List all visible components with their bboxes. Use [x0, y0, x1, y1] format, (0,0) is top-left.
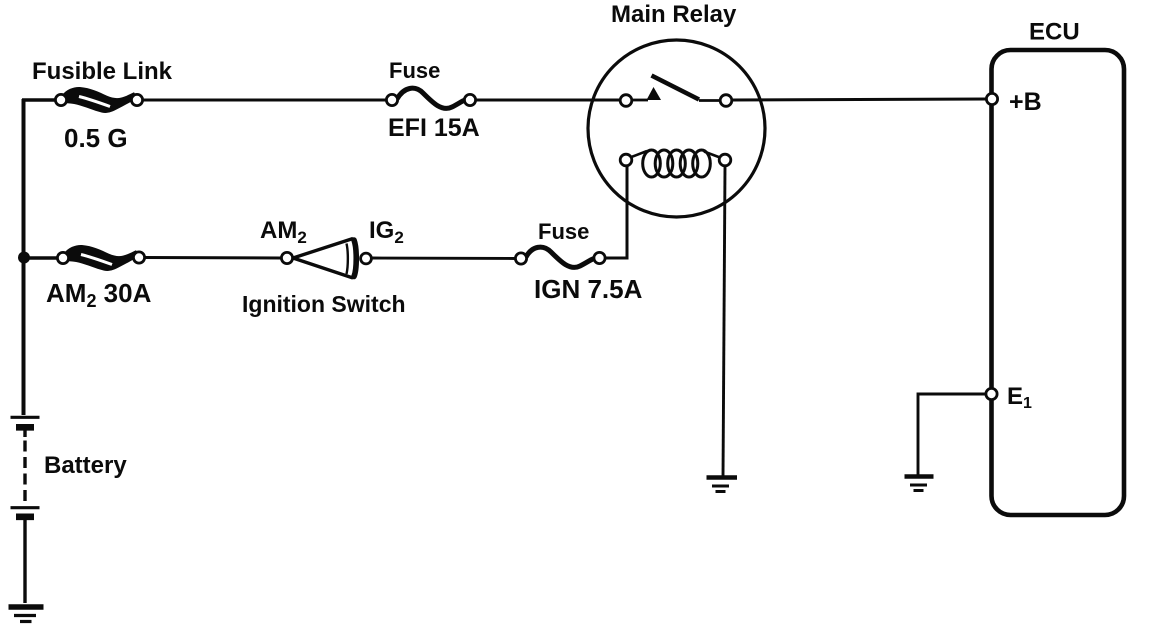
wire: EFI fuse to relay switch — [476, 99, 620, 102]
fuse EFI 15A — [386, 88, 475, 108]
relay switch contact (left pin) — [620, 95, 632, 107]
terminal E1 — [986, 388, 997, 399]
svg-text:Ignition Switch: Ignition Switch — [242, 291, 406, 317]
svg-text:AM2: AM2 — [260, 217, 307, 247]
relay fixed contact triangle — [632, 87, 661, 100]
wire: battery positive vertical riser — [22, 99, 26, 415]
svg-text:Fuse: Fuse — [538, 219, 589, 244]
svg-text:AM2 30A: AM2 30A — [46, 278, 152, 311]
ECU box — [992, 50, 1125, 515]
ground (E1) — [905, 477, 934, 491]
label Ignition Switch — [242, 291, 406, 317]
wire: fusible link to EFI fuse — [143, 99, 386, 102]
label Main Relay — [611, 1, 737, 28]
relay coil right pin — [719, 154, 731, 166]
wire: AM2 link to ignition switch — [145, 256, 281, 260]
wire: battery negative to ground — [23, 520, 26, 603]
relay Main Relay: enclosure circle — [588, 40, 765, 217]
svg-text:+B: +B — [1009, 88, 1042, 116]
svg-text:Fusible Link: Fusible Link — [32, 58, 173, 85]
svg-text:Fuse: Fuse — [389, 58, 440, 83]
svg-text:0.5 G: 0.5 G — [64, 123, 128, 153]
svg-text:Battery: Battery — [44, 452, 127, 479]
wire: relay switch to ECU +B — [732, 99, 987, 100]
svg-text:E1: E1 — [1007, 383, 1032, 412]
wire: E1 to ground — [918, 394, 986, 475]
terminal +B — [986, 93, 997, 104]
battery — [11, 417, 40, 517]
label Battery — [44, 452, 127, 479]
label Fuse (IGN) — [538, 219, 589, 244]
wire: junction to AM2 fusible link — [24, 256, 57, 260]
label EFI 15A — [388, 114, 480, 142]
label AM2 (switch input) — [260, 217, 307, 247]
fusible link AM2 30A — [57, 245, 144, 271]
label AM2 30A — [46, 278, 152, 311]
svg-text:Main Relay: Main Relay — [611, 1, 737, 28]
svg-text:IG2: IG2 — [369, 217, 404, 247]
wire: relay coil right pin down to ground — [723, 166, 725, 478]
svg-text:EFI 15A: EFI 15A — [388, 114, 480, 142]
wire: ignition switch to IGN fuse — [372, 257, 515, 260]
label Fuse (EFI) — [389, 58, 440, 83]
relay coil left pin — [620, 154, 632, 166]
label IG2 (switch output) — [369, 217, 404, 247]
relay coil — [630, 150, 720, 177]
label E1 — [1007, 383, 1032, 412]
fuse IGN 7.5A — [515, 247, 605, 267]
svg-text:IGN 7.5A: IGN 7.5A — [534, 274, 643, 304]
wire: top feed from riser to fusible link — [22, 98, 56, 102]
label 0.5 G — [64, 123, 128, 153]
label IGN 7.5A — [534, 274, 643, 304]
wire: IGN fuse to relay coil left pin — [605, 166, 627, 258]
ground (relay coil) — [707, 478, 738, 492]
fusible link 0.5 G — [55, 87, 142, 113]
ground (battery) — [9, 607, 44, 622]
label Fusible Link — [32, 58, 173, 85]
junction node on riser — [18, 252, 30, 264]
relay switch contact (right pin) — [699, 95, 732, 107]
ignition switch — [281, 239, 371, 279]
label ECU — [1029, 19, 1080, 46]
svg-text:ECU: ECU — [1029, 19, 1080, 46]
relay switch blade — [652, 76, 700, 100]
label +B — [1009, 88, 1042, 116]
